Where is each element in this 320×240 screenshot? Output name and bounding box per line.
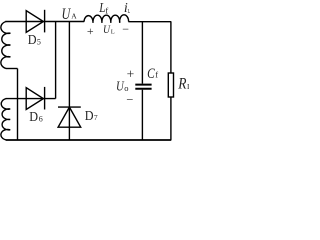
wire capacitor top lead — [141, 22, 143, 84]
svg-text:U: U — [116, 80, 124, 95]
svg-text:6: 6 — [39, 115, 43, 124]
svg-text:R: R — [177, 75, 187, 92]
svg-text:L: L — [187, 82, 189, 91]
svg-text:o: o — [124, 83, 128, 93]
label D6 — [29, 109, 42, 124]
svg-text:+: + — [127, 67, 135, 82]
node A label U_A — [62, 6, 78, 23]
svg-text:C: C — [147, 66, 155, 82]
diode D6 cathode bar — [44, 87, 46, 110]
wire capacitor bottom lead — [141, 90, 143, 140]
value label Cf — [147, 66, 158, 82]
diode D7 — [58, 107, 81, 127]
svg-text:+: + — [87, 24, 94, 38]
wire D6 cathode riser — [55, 22, 57, 99]
svg-text:A: A — [71, 12, 77, 21]
voltage label UL — [103, 24, 115, 36]
label D7 — [85, 108, 98, 123]
label D5 — [28, 32, 41, 47]
wire D6 anode — [6, 98, 56, 100]
wire center-tap stub — [6, 68, 18, 70]
voltage label Uo — [116, 80, 128, 95]
diode D5 — [26, 11, 43, 33]
value label Lf — [98, 1, 108, 16]
resistor RL — [168, 73, 173, 97]
svg-text:D: D — [29, 109, 38, 124]
svg-text:L: L — [128, 8, 131, 15]
wire top rail right — [128, 21, 171, 23]
svg-text:L: L — [111, 29, 115, 36]
capacitor Cf bottom plate — [135, 88, 151, 90]
capacitor Cf top plate — [135, 84, 151, 86]
transformer winding top (secondary) — [1, 22, 11, 69]
svg-text:U: U — [103, 24, 111, 36]
diode D6 — [26, 88, 43, 110]
wire RL top lead — [170, 22, 172, 74]
svg-text:−: − — [126, 92, 133, 106]
value label RL — [177, 75, 192, 92]
svg-text:f: f — [105, 5, 108, 15]
inductor Lf — [84, 15, 129, 23]
svg-text:5: 5 — [37, 37, 41, 46]
current label iL — [124, 1, 130, 16]
svg-text:D: D — [85, 108, 94, 123]
svg-text:−: − — [122, 22, 129, 36]
diode D7 cathode bar — [58, 106, 81, 108]
wire D7 branch vertical — [68, 22, 70, 140]
svg-text:D: D — [28, 32, 37, 47]
wire bottom rail — [6, 139, 172, 141]
wire center-tap vertical — [17, 69, 19, 140]
diode D5 cathode bar — [44, 10, 46, 33]
wire top rail left — [5, 21, 84, 23]
svg-text:7: 7 — [94, 113, 98, 122]
wire RL bottom lead — [170, 97, 172, 140]
svg-text:U: U — [62, 6, 72, 23]
transformer winding bottom (secondary) — [1, 99, 10, 140]
svg-text:f: f — [155, 70, 158, 80]
